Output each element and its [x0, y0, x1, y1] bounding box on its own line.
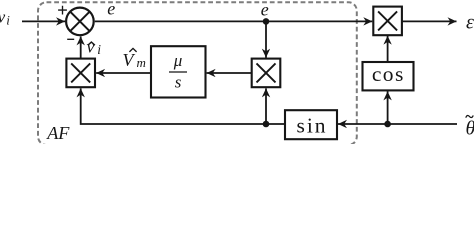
svg-text:e: e: [261, 0, 269, 19]
svg-text:m: m: [137, 55, 146, 70]
svg-text:e: e: [107, 0, 115, 19]
svg-text:V: V: [123, 50, 136, 70]
svg-text:AF: AF: [46, 123, 70, 143]
svg-text:sin: sin: [296, 114, 327, 138]
svg-text:θ: θ: [466, 118, 474, 140]
svg-text:s: s: [175, 73, 182, 92]
svg-text:i: i: [6, 13, 10, 28]
svg-text:cos: cos: [372, 62, 405, 86]
svg-text:v: v: [0, 8, 6, 27]
svg-text:ε: ε: [466, 12, 474, 34]
svg-text:i: i: [97, 42, 101, 57]
svg-text:μ: μ: [173, 51, 183, 70]
svg-text:v: v: [87, 37, 95, 57]
